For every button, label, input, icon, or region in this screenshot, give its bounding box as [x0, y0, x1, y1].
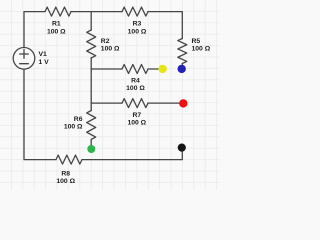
wire — [90, 103, 92, 110]
resistor R1 — [45, 7, 71, 35]
svg-text:R8: R8 — [61, 171, 70, 178]
node yellow probe — [158, 65, 166, 73]
svg-text:R7: R7 — [132, 112, 141, 119]
node black probe — [178, 144, 186, 152]
wire — [181, 64, 183, 66]
resistor R2 — [87, 30, 120, 58]
resistor R6 — [64, 111, 96, 140]
node blue probe — [178, 65, 186, 73]
wire — [90, 140, 92, 146]
svg-text:100 Ω: 100 Ω — [128, 28, 147, 35]
node green probe — [87, 145, 95, 153]
resistor R4 — [122, 65, 148, 93]
svg-text:1 V: 1 V — [39, 59, 50, 66]
svg-text:100 Ω: 100 Ω — [56, 178, 75, 185]
wire — [90, 58, 92, 103]
svg-text:R2: R2 — [101, 38, 110, 45]
svg-text:R5: R5 — [192, 38, 201, 45]
node red probe — [179, 99, 187, 107]
wire — [148, 68, 159, 70]
wire — [148, 12, 182, 39]
wire — [91, 102, 122, 104]
svg-text:100 Ω: 100 Ω — [126, 85, 145, 92]
wire — [90, 12, 92, 30]
svg-text:100 Ω: 100 Ω — [192, 46, 211, 53]
voltage source V1 — [13, 48, 49, 70]
wire — [91, 68, 122, 70]
wire — [24, 69, 56, 160]
svg-text:100 Ω: 100 Ω — [64, 124, 83, 131]
svg-text:100 Ω: 100 Ω — [127, 119, 146, 126]
svg-text:R6: R6 — [74, 116, 83, 123]
svg-text:R3: R3 — [133, 21, 142, 28]
svg-text:100 Ω: 100 Ω — [101, 46, 120, 53]
svg-text:R4: R4 — [131, 78, 140, 85]
svg-text:100 Ω: 100 Ω — [47, 28, 66, 35]
resistor R7 — [122, 99, 148, 127]
resistor R8 — [56, 155, 82, 185]
resistor R5 — [178, 38, 211, 64]
resistor R3 — [122, 7, 148, 35]
wire — [82, 151, 182, 159]
wire — [148, 102, 180, 104]
wire — [24, 12, 45, 48]
wire — [71, 11, 122, 13]
svg-text:R1: R1 — [52, 21, 61, 28]
svg-text:V1: V1 — [39, 51, 48, 58]
